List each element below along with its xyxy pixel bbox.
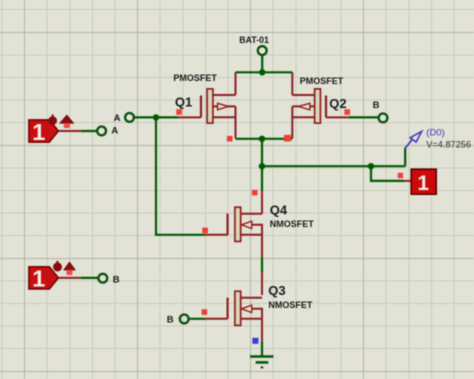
- toggle button icon A: [52, 115, 54, 117]
- logicstate input B: [29, 267, 59, 289]
- svg-text:B: B: [113, 274, 120, 285]
- svg-text:Q4: Q4: [270, 203, 288, 218]
- logicstate input A: [29, 120, 59, 142]
- ground: [250, 357, 274, 369]
- wire A2 to Q1 gate: [134, 116, 178, 118]
- svg-text:Q1: Q1: [175, 94, 192, 109]
- pin logicstate B: [58, 277, 80, 279]
- marker Q2: [344, 109, 350, 115]
- svg-text:NMOSFET: NMOSFET: [270, 219, 315, 229]
- svg-text:BAT-01: BAT-01: [239, 35, 269, 45]
- svg-text:B: B: [373, 100, 380, 111]
- wire VDD rail: [236, 71, 293, 73]
- pin Q3 drain up: [261, 272, 263, 295]
- power terminal BAT-01: [258, 46, 267, 55]
- svg-text:A: A: [114, 113, 121, 124]
- wire output down: [261, 139, 263, 191]
- marker Q3 gate: [202, 309, 208, 315]
- svg-text:V=4.87256: V=4.87256: [426, 139, 471, 149]
- terminal B input: [98, 274, 107, 283]
- junction output: [259, 136, 265, 142]
- marker logic probe: [398, 173, 403, 178]
- terminal B at Q3: [180, 315, 189, 324]
- svg-text:1: 1: [32, 266, 45, 292]
- svg-text:PMOSFET: PMOSFET: [173, 73, 217, 83]
- transistor Q3 NMOSFET: [205, 283, 313, 341]
- terminal A1: [97, 126, 106, 135]
- junction output mid: [259, 163, 265, 169]
- marker Q2 drain corner: [284, 135, 291, 142]
- svg-text:B: B: [167, 315, 174, 326]
- svg-text:1: 1: [417, 172, 429, 195]
- wire Q4 to Q3: [261, 257, 263, 272]
- svg-text:A: A: [111, 126, 118, 137]
- wire output to probe area: [262, 165, 405, 167]
- wire logicstate A to terminal: [81, 130, 97, 132]
- marker blue Q3 source: [252, 338, 258, 344]
- svg-text:Q3: Q3: [268, 283, 285, 298]
- wire to logic probe: [371, 166, 404, 181]
- terminal B at Q2: [379, 114, 388, 123]
- toggle arrow icon A: [60, 115, 73, 123]
- svg-text:NMOSFET: NMOSFET: [268, 300, 313, 310]
- marker Q4 gate: [202, 228, 208, 234]
- junction probe branch: [368, 163, 374, 169]
- wire output node horizontal: [236, 138, 293, 140]
- pin logicstate A: [58, 130, 80, 132]
- svg-text:PMOSFET: PMOSFET: [300, 76, 344, 86]
- marker Q4 drain: [252, 190, 258, 196]
- wire Q3 source to ground: [261, 341, 263, 356]
- pin logic probe: [404, 180, 412, 182]
- svg-text:Q2: Q2: [329, 96, 346, 111]
- svg-text:(D0): (D0): [426, 127, 444, 138]
- toggle arrow icon B: [64, 262, 75, 270]
- toggle button icon B: [57, 261, 59, 264]
- svg-text:1: 1: [32, 119, 45, 145]
- transistor Q2 PMOSFET: [292, 72, 349, 138]
- marker Q1: [176, 109, 182, 115]
- wire A down to Q4 gate: [156, 117, 205, 234]
- junction node A: [153, 114, 159, 120]
- terminal A2: [125, 113, 134, 122]
- transistor Q4 NMOSFET: [205, 191, 314, 257]
- wire BAT stub: [261, 55, 263, 72]
- marker output wire: [227, 136, 233, 142]
- wire probe stub: [404, 148, 406, 166]
- transistor Q1 PMOSFET: [173, 72, 235, 138]
- wire Q2 gate to terminal B: [349, 116, 379, 118]
- junction VDD: [259, 69, 265, 75]
- wire logicstate B to terminal: [81, 277, 99, 279]
- wire Q3 gate: [189, 318, 206, 320]
- voltage probe D0: [405, 127, 471, 149]
- logic probe box 1: [411, 169, 436, 195]
